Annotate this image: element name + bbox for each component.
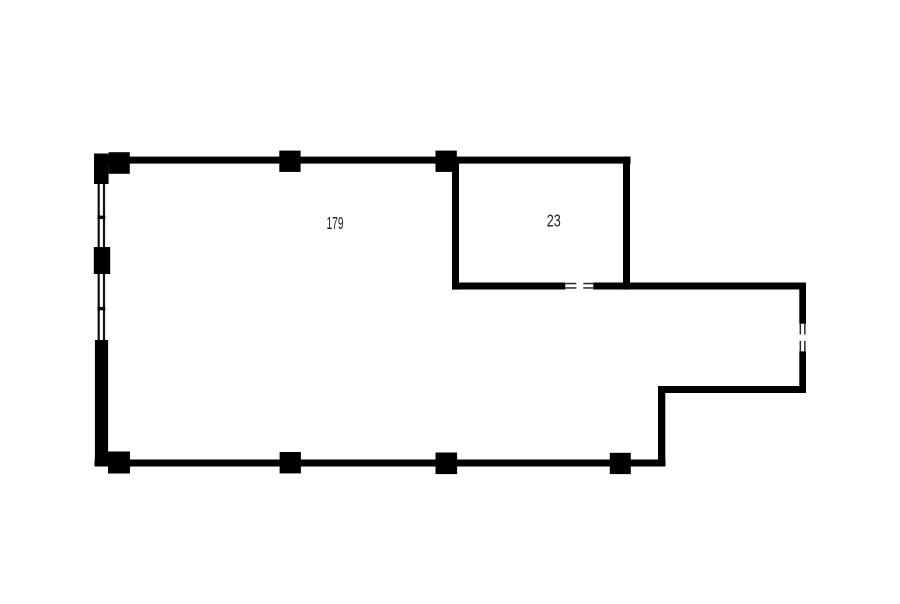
window west lower [98,274,106,340]
wall top (main room north wall) [94,157,631,164]
svg-text:23: 23 [547,211,561,231]
wall room-23 west [452,157,459,290]
pillar top A [279,151,300,172]
wall mid horizontal west segment [452,283,565,290]
window west lower mullion [97,307,105,310]
window in east wall [800,324,806,352]
wall east upper segment [799,283,806,324]
window west upper [98,184,106,247]
wall room-23 east [623,157,630,290]
pillar bottom C [610,453,631,474]
window in mid horizontal wall [565,283,593,289]
window west upper mullion [97,216,105,219]
wall west top block [94,154,109,185]
wall bottom (south wall) [95,460,666,467]
pillar bottom B [436,453,458,475]
pillar bottom-left corner [108,452,130,474]
wall east lower segment [799,351,806,393]
wall mid horizontal east segment [593,283,806,290]
wall southeast horizontal [658,386,806,393]
wall west lower thick [95,340,108,466]
pillar top-left corner [109,152,130,174]
column west [94,247,110,274]
pillar bottom A [280,452,301,473]
svg-text:179: 179 [327,213,344,233]
pillar top B [436,151,457,172]
wall mid vertical [658,386,665,466]
